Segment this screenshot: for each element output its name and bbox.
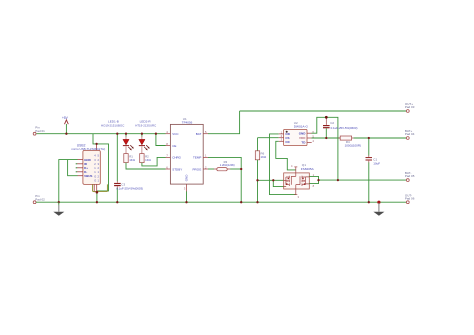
svg-text:HT19-213SURC: HT19-213SURC [135, 123, 156, 127]
svg-text:STDBY: STDBY [172, 167, 182, 171]
svg-text:1.2KΩ(1206): 1.2KΩ(1206) [220, 163, 235, 167]
svg-text:VBUS: VBUS [84, 174, 92, 178]
ic U2 DW01A-G [284, 129, 307, 145]
svg-text:TEMP: TEMP [193, 156, 201, 160]
junction Q1 right node [317, 179, 319, 181]
svg-text:DW01A-G: DW01A-G [294, 125, 309, 129]
svg-text:+5V: +5V [62, 116, 69, 120]
svg-text:PROG: PROG [193, 167, 203, 171]
wire U2 GND to B- [312, 117, 338, 180]
transistor Q1 FS8205A [284, 173, 310, 189]
wire +5V top rail [36, 133, 165, 135]
label R2 [145, 154, 152, 162]
junction B- drop [337, 179, 339, 181]
wire CE drop [156, 134, 166, 146]
svg-text:Pad 02: Pad 02 [35, 198, 45, 202]
svg-text:4: 4 [312, 139, 314, 143]
LED LED1 [123, 134, 134, 154]
svg-text:Pad 04: Pad 04 [405, 132, 415, 136]
svg-text:VDD: VDD [299, 136, 306, 140]
label R3 [220, 160, 235, 167]
wire STDBY to R1 [126, 163, 166, 169]
junction C1 top [368, 137, 370, 139]
svg-text:C2: C2 [330, 121, 334, 125]
resistor R4 [338, 136, 354, 140]
wire +5V stem [65, 124, 67, 134]
U1 pin stubs [166, 134, 209, 192]
label Pad 06 [405, 193, 415, 200]
svg-text:0.1uF-25V-5%(0603): 0.1uF-25V-5%(0603) [331, 126, 358, 130]
junction C3 rail [116, 133, 118, 135]
junction CE rail [155, 133, 157, 135]
label LED1 [101, 120, 124, 128]
junction gnd rail USB [96, 201, 98, 203]
capacitor C2 [323, 117, 330, 138]
svg-text:BAT: BAT [196, 132, 202, 136]
node BAT- Pad 05 [406, 179, 409, 182]
capacitor C1 [366, 138, 373, 202]
junction Q1 left node [272, 179, 274, 181]
wire USB shield olive [93, 184, 108, 191]
wire U1 BAT to top rail [208, 111, 240, 134]
Q1 bottom gate pin [294, 189, 297, 195]
Q1 top gate pin [294, 167, 297, 173]
svg-text:3: 3 [184, 186, 186, 190]
connector USB2 body [83, 150, 100, 184]
connector USB2 top pin [96, 144, 98, 151]
label USB2 [71, 144, 105, 152]
connector USB2 stub tips [76, 164, 77, 172]
wire R6 to gnd rail [257, 180, 259, 202]
wire CS branch to Q1 lower pin [273, 180, 283, 186]
junction LED1 rail [125, 133, 127, 135]
svg-text:CHRG: CHRG [172, 156, 181, 160]
junction gnd rail R6 [256, 201, 258, 203]
svg-text:Pad 06: Pad 06 [405, 196, 415, 200]
junction R6 CS node [256, 179, 258, 181]
junction gnd rail TEMP [240, 201, 242, 203]
connector USB2 bottom pins [94, 184, 97, 192]
ground right [373, 203, 384, 216]
junction gnd rail U1 [185, 201, 187, 203]
resistor R2 [140, 154, 144, 163]
connector USB2 pin numbers [94, 154, 99, 183]
junction C2 bottom [325, 137, 327, 139]
wire CHRG to R2 [142, 157, 166, 166]
svg-text:100Ω(100R): 100Ω(100R) [345, 144, 361, 148]
wire CS node row [258, 179, 284, 181]
svg-text:HO19-2151UBGC: HO19-2151UBGC [101, 123, 124, 127]
svg-text:Pad 01: Pad 01 [35, 129, 45, 133]
svg-text:1KΩ: 1KΩ [129, 158, 136, 162]
resistor R1 [124, 154, 128, 163]
label C3 [116, 182, 143, 190]
junction +5V at supply [65, 133, 67, 135]
junction gnd rail C1 [368, 201, 370, 203]
label R1 [129, 154, 136, 162]
wire BAT top rail [240, 110, 407, 112]
wire B- row to pad [319, 179, 407, 181]
svg-text:1KΩ: 1KΩ [145, 158, 152, 162]
U2 pin numbers [281, 130, 315, 143]
label U2 [294, 121, 309, 129]
node OUT- Pad 06 [406, 201, 409, 204]
wire U1 GND [186, 191, 188, 202]
wire TEMP to gnd [208, 157, 241, 202]
junction LED2 rail [141, 133, 143, 135]
Q1 internals [284, 173, 310, 189]
wire USB GND left [59, 160, 78, 203]
svg-text:CE: CE [172, 144, 176, 148]
svg-text:GND: GND [299, 132, 307, 136]
junction C2 top [325, 116, 328, 119]
resistor R6 [255, 138, 259, 181]
label U1 [182, 117, 193, 125]
label R6 [261, 151, 268, 159]
label Pad 02 [35, 194, 45, 202]
wire U2 OC to top gate [276, 141, 296, 170]
svg-text:TP4056: TP4056 [182, 121, 193, 125]
U1 pin names [172, 132, 202, 181]
Q1 pin numbers [291, 164, 315, 199]
op-amp U1 TP4056 [170, 124, 203, 184]
node BAT+ Pad 04 [406, 137, 409, 140]
wire BAT+ row [354, 137, 407, 139]
node Pin Pad 02 [33, 201, 36, 204]
wire GND bottom rail [36, 201, 406, 203]
label Pad 04 [405, 129, 415, 136]
svg-text:G: G [94, 174, 96, 178]
wire PROG left [208, 168, 214, 170]
label Q1 [301, 163, 315, 171]
svg-text:G: G [94, 178, 96, 182]
wire VDD row [312, 137, 341, 139]
LED LED2 [139, 134, 150, 154]
U2 pin names [285, 132, 306, 145]
svg-text:Pad 03: Pad 03 [405, 105, 415, 109]
svg-text:VCC: VCC [172, 132, 179, 136]
junction USB bottom [96, 191, 99, 194]
U2 pin1 mark [286, 131, 288, 133]
label Pad 01 [35, 126, 45, 134]
wire Q1 right pins to B- row [309, 176, 318, 183]
junction gnd rail C3 [116, 201, 118, 203]
svg-text:GND: GND [185, 174, 189, 182]
label R4 [345, 140, 361, 148]
wire PROG right [230, 168, 241, 170]
svg-text:10uF: 10uF [373, 162, 380, 166]
junction USB vbus [95, 143, 97, 145]
node OUT+ Pad 03 [406, 110, 409, 113]
wire U2 CS [258, 137, 279, 139]
supply symbol +5V [65, 120, 69, 124]
connector USB2 left pin stubs [77, 160, 83, 176]
node Pin Pad 01 [33, 132, 36, 135]
junction R3 TEMP [240, 168, 242, 170]
label C1 [373, 158, 380, 166]
U1 pin numbers [166, 130, 207, 190]
label Pad 05 [405, 171, 415, 178]
U2 pin stubs [279, 133, 312, 142]
wire U2 OD to low gate [270, 134, 296, 195]
wire USB VBUS drop [93, 134, 109, 203]
resistor R3 [214, 168, 231, 171]
svg-text:0.1uF-25V-5%(0603): 0.1uF-25V-5%(0603) [116, 186, 143, 190]
svg-text:1KΩ: 1KΩ [261, 155, 268, 159]
label Pad 03 [405, 102, 415, 109]
svg-text:FS8205A: FS8205A [301, 167, 315, 171]
svg-text:8: 8 [313, 184, 315, 188]
label LED2 [135, 120, 156, 128]
svg-text:micro USB-TH(SMD&TH): micro USB-TH(SMD&TH) [71, 147, 105, 151]
svg-text:Pad 05: Pad 05 [405, 174, 415, 178]
junction gnd rail earth [377, 201, 380, 204]
junction gnd rail USB left [58, 201, 60, 203]
label C2 [330, 121, 357, 130]
ground left [53, 202, 64, 216]
capacitor C3 [114, 134, 121, 203]
connector USB2 pin names [84, 158, 92, 178]
svg-text:4: 4 [291, 164, 293, 168]
svg-text:3: 3 [298, 195, 300, 199]
